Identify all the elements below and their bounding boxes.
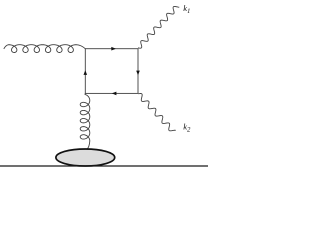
hadron blob — [56, 149, 115, 166]
baseline — [0, 165, 208, 167]
arrow top (right) — [111, 47, 116, 51]
photon k2 — [138, 94, 175, 131]
arrow left (up) — [84, 70, 88, 75]
arrow bottom (left) — [112, 92, 117, 96]
gluon g2 (down to blob) — [80, 93, 90, 149]
gluon g1 (incoming, left) — [4, 45, 86, 53]
arrow right (down) — [136, 71, 140, 76]
photon k1 — [138, 6, 179, 48]
quark box loop — [85, 49, 138, 94]
